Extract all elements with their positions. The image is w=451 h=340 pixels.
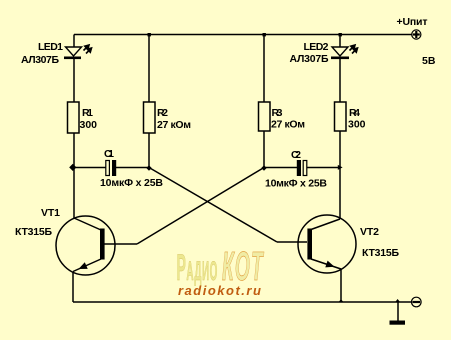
svg-text:10мкФ х 25В: 10мкФ х 25В — [265, 178, 327, 190]
svg-text:LED1: LED1 — [38, 41, 63, 53]
svg-text:300: 300 — [348, 119, 366, 131]
svg-text:27 кОм: 27 кОм — [271, 119, 305, 131]
svg-text:КТ315Б: КТ315Б — [362, 247, 399, 259]
svg-text:C2: C2 — [291, 149, 301, 161]
svg-text:VT1: VT1 — [41, 207, 60, 219]
svg-text:+Uпит: +Uпит — [397, 16, 428, 28]
svg-text:5В: 5В — [422, 55, 436, 67]
svg-text:R2: R2 — [157, 107, 168, 119]
svg-text:R4: R4 — [349, 107, 360, 119]
svg-text:АЛ307Б: АЛ307Б — [290, 53, 329, 65]
svg-text:R1: R1 — [82, 107, 93, 119]
svg-text:C1: C1 — [104, 148, 114, 160]
svg-text:10мкФ х 25В: 10мкФ х 25В — [100, 177, 163, 189]
svg-text:300: 300 — [80, 119, 98, 131]
svg-text:R3: R3 — [272, 107, 283, 119]
svg-text:LED2: LED2 — [304, 41, 329, 53]
svg-text:radiokot.ru: radiokot.ru — [178, 283, 262, 298]
svg-text:АЛ307Б: АЛ307Б — [21, 54, 59, 66]
svg-text:27 кОм: 27 кОм — [157, 119, 191, 131]
svg-text:КТ315Б: КТ315Б — [15, 226, 52, 238]
svg-text:VT2: VT2 — [360, 226, 379, 238]
